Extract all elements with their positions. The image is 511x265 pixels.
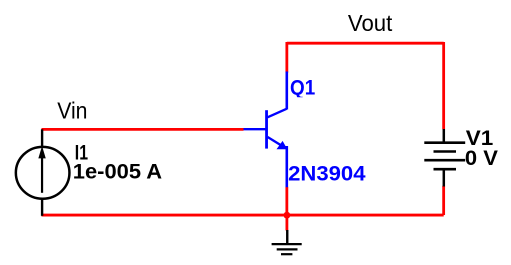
svg-text:Q1: Q1	[290, 76, 315, 100]
svg-text:Vin: Vin	[57, 97, 87, 123]
svg-text:1e-005 A: 1e-005 A	[73, 160, 162, 184]
svg-text:Vout: Vout	[348, 10, 393, 36]
svg-text:0 V: 0 V	[465, 146, 499, 170]
svg-text:2N3904: 2N3904	[288, 162, 366, 186]
